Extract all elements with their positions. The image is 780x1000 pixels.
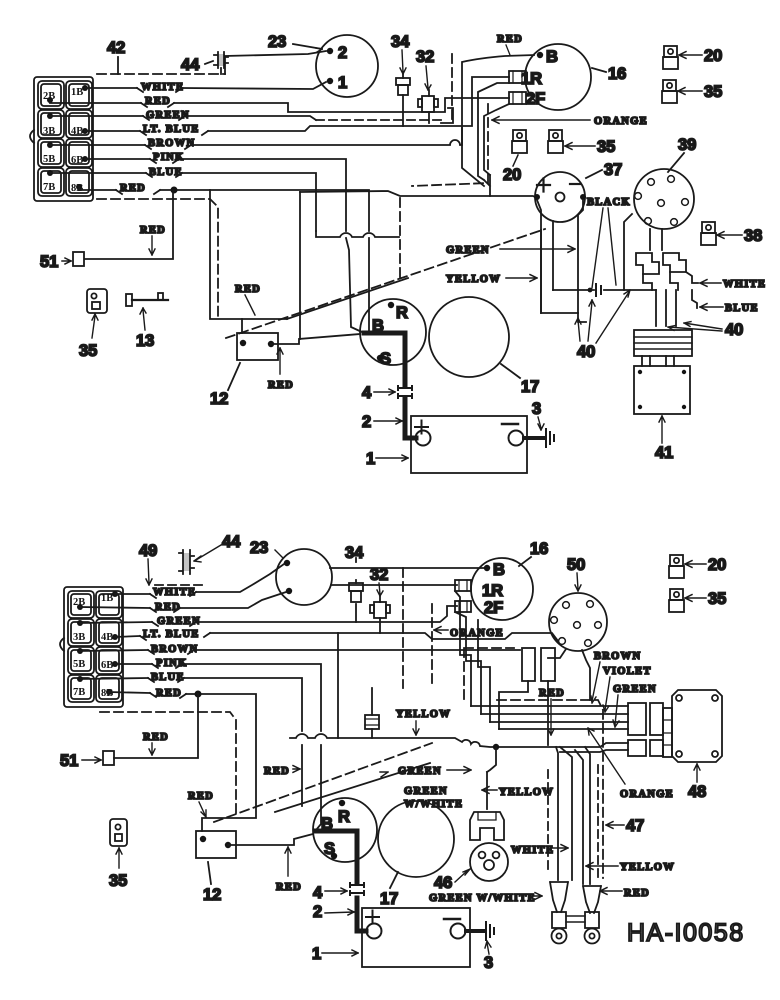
solid diagonal near 12 [287, 278, 408, 319]
svg-text:YELLOW: YELLOW [446, 274, 501, 285]
svg-text:BLUE: BLUE [151, 672, 185, 683]
svg-text:RED: RED [264, 766, 290, 777]
svg-text:5B: 5B [43, 154, 55, 165]
wire LT. BLUE (bottom) [115, 633, 558, 641]
dashed loop below block [97, 199, 218, 316]
wire into ammeter plus [300, 191, 535, 197]
connector icon 35 (top right) [662, 80, 677, 103]
wire WHITE (bottom) [115, 564, 284, 594]
svg-text:35: 35 [704, 83, 722, 101]
svg-text:32: 32 [416, 48, 434, 66]
svg-text:35: 35 [79, 342, 97, 360]
svg-text:7B: 7B [73, 687, 85, 698]
wire LT. BLUE (top) [85, 77, 509, 131]
wire BLUE (top) [50, 173, 316, 231]
svg-text:GREEN: GREEN [157, 616, 201, 627]
relay box 12 [237, 333, 278, 360]
lamp socket bracket [486, 772, 488, 809]
thick cable starter to battery (bottom) [316, 831, 366, 931]
svg-text:2F: 2F [526, 90, 545, 108]
svg-text:B: B [493, 561, 505, 579]
connector 51 (bottom) [103, 751, 114, 765]
bus with hops [316, 231, 399, 237]
wire to gauge terminal 2 [225, 51, 326, 74]
svg-text:RED: RED [624, 888, 650, 899]
fuse holder 34 (bottom) [355, 558, 357, 622]
fuse 4 (bottom) [350, 883, 364, 895]
terminal 1 of gauge 23 [327, 78, 333, 84]
dashed wire from 42 [97, 73, 225, 75]
wire RED (bottom 8B) [109, 692, 256, 831]
dashed harness boundary [451, 54, 453, 123]
harness horizontals to voltage regulator 48 [471, 706, 628, 729]
wire WHITE (top) [85, 82, 326, 89]
svg-text:GREEN W/WHITE: GREEN W/WHITE [429, 893, 536, 904]
svg-text:LT. BLUE: LT. BLUE [143, 124, 200, 135]
svg-text:RED: RED [155, 602, 181, 613]
svg-text:5B: 5B [73, 659, 85, 670]
svg-text:RED: RED [268, 380, 294, 391]
svg-text:GREEN: GREEN [146, 110, 190, 121]
svg-text:39: 39 [678, 136, 696, 154]
svg-text:51: 51 [60, 752, 78, 770]
svg-text:W/WHITE: W/WHITE [404, 799, 463, 810]
wire label ORANGE with line [492, 117, 590, 124]
solid diagonal with arrow (green w/white leader) [275, 763, 430, 812]
magneto 50 [549, 593, 607, 651]
wire GREEN (top) [50, 116, 316, 120]
svg-text:12: 12 [203, 886, 221, 904]
relay icon 35 (bottom left) [110, 819, 127, 846]
svg-text:ORANGE: ORANGE [620, 789, 674, 800]
dashed diagonal (bottom) [214, 743, 432, 822]
yellow wire vertical [537, 200, 578, 313]
block cell labels (bottom) [73, 593, 113, 699]
battery (top) [411, 416, 527, 473]
wires from gauge 23 to regulator 16 (bottom) [330, 567, 484, 569]
svg-text:R: R [396, 304, 408, 322]
connector 41 bottom [634, 366, 690, 414]
voltage regulator 48 [672, 690, 722, 762]
svg-text:BROWN: BROWN [148, 138, 195, 149]
wires below distributor 39 [650, 229, 662, 250]
svg-text:PINK: PINK [153, 152, 184, 163]
svg-text:BROWN: BROWN [151, 644, 198, 655]
capacitor 44 (bottom) [179, 550, 194, 574]
gauge circle 23 [316, 35, 378, 97]
svg-text:R: R [338, 808, 350, 826]
svg-text:13: 13 [136, 332, 154, 350]
svg-text:3B: 3B [43, 126, 55, 137]
svg-text:12: 12 [210, 390, 228, 408]
quick disconnects above 41 [636, 253, 659, 274]
flywheel circle 17 [429, 297, 509, 377]
svg-text:GREEN: GREEN [404, 786, 448, 797]
wire RED (bottom row2) [80, 592, 286, 608]
distributor 39 [634, 169, 694, 229]
svg-text:RED: RED [140, 225, 166, 236]
block cell labels [43, 87, 83, 194]
relay icon 35 (left) [87, 289, 107, 313]
descending bundle right of 16 [478, 83, 509, 180]
wire BROWN (bottom) [80, 650, 520, 651]
capacitor 44 [214, 52, 228, 68]
svg-text:YELLOW: YELLOW [499, 787, 554, 798]
svg-text:1: 1 [312, 945, 321, 963]
left mid: junction dot on RED wire [171, 187, 178, 194]
svg-text:3B: 3B [73, 632, 85, 643]
tall connectors below magneto [522, 648, 535, 681]
svg-text:YELLOW: YELLOW [620, 862, 675, 873]
gauge circle 23 (bottom) [276, 549, 332, 605]
wire from 51 (bottom) [114, 694, 198, 758]
dashed under block (bottom) [100, 712, 236, 816]
svg-text:4: 4 [362, 384, 372, 402]
wire BROWN (top) [50, 55, 534, 145]
breaker 46 [470, 843, 508, 881]
svg-text:VIOLET: VIOLET [603, 666, 652, 677]
svg-text:34: 34 [345, 544, 364, 562]
svg-text:35: 35 [597, 138, 615, 156]
svg-text:20: 20 [503, 166, 521, 184]
svg-text:WHITE: WHITE [723, 279, 766, 290]
connector icon 20 (middle) [512, 130, 527, 153]
connector block (terminal block, bottom diagram) [60, 587, 123, 707]
svg-text:GREEN: GREEN [398, 766, 442, 777]
connector stack 41 top [634, 330, 692, 356]
svg-text:17: 17 [380, 890, 398, 908]
wire from 51 up to RED wire [85, 190, 173, 259]
svg-text:1R: 1R [482, 582, 503, 600]
svg-text:17: 17 [521, 378, 539, 396]
svg-text:38: 38 [744, 227, 762, 245]
green wire vertical from ammeter [578, 200, 583, 313]
svg-text:WHITE: WHITE [153, 587, 196, 598]
svg-text:40: 40 [577, 343, 595, 361]
svg-text:2F: 2F [484, 599, 503, 617]
connector icon 35 (bottom right) [669, 589, 684, 612]
connector icon 20 (top right) [663, 46, 678, 69]
svg-text:RED: RED [539, 688, 565, 699]
svg-text:50: 50 [567, 556, 585, 574]
connector icon 35 (middle) [548, 130, 563, 153]
svg-text:RED: RED [143, 732, 169, 743]
wire bundle left of 41 [578, 313, 586, 322]
wire PINK (top) [85, 159, 346, 231]
solid left loop to box 12 [210, 190, 242, 319]
svg-text:6B: 6B [101, 660, 113, 671]
svg-text:GREEN: GREEN [613, 684, 657, 695]
svg-text:2: 2 [313, 903, 322, 921]
svg-text:42: 42 [107, 39, 125, 57]
svg-text:1: 1 [338, 74, 347, 92]
svg-text:3: 3 [532, 400, 541, 418]
fork connector left funnel [550, 882, 568, 912]
svg-text:16: 16 [608, 65, 626, 83]
dashed diagonal (red wire) [226, 229, 545, 338]
svg-text:ORANGE: ORANGE [450, 628, 504, 639]
fuse 4 [398, 386, 412, 398]
starter relay B R S (bottom) [313, 798, 377, 862]
flywheel circle 17 (bottom) [378, 801, 454, 877]
svg-text:48: 48 [688, 783, 706, 801]
wire BLUE (bottom) [80, 678, 302, 806]
terminal 2 of gauge 23 [327, 48, 333, 54]
svg-text:49: 49 [139, 542, 157, 560]
svg-text:1B: 1B [101, 593, 113, 604]
svg-text:8B: 8B [71, 183, 83, 194]
svg-text:RED: RED [276, 882, 302, 893]
svg-text:46: 46 [434, 874, 452, 892]
svg-text:GREEN: GREEN [446, 245, 490, 256]
svg-text:51: 51 [40, 253, 58, 271]
svg-text:37: 37 [604, 161, 622, 179]
wire under 39 to capacitor [624, 214, 632, 290]
svg-text:RED: RED [188, 791, 214, 802]
svg-text:RED: RED [497, 34, 523, 45]
svg-text:B: B [546, 48, 558, 66]
svg-text:4B: 4B [71, 126, 83, 137]
svg-text:34: 34 [391, 33, 410, 51]
svg-text:20: 20 [708, 556, 726, 574]
wire from 12 to starter B [271, 334, 360, 344]
switch 13 [132, 299, 168, 301]
svg-text:ORANGE: ORANGE [594, 116, 648, 127]
dashed harness lines (bottom mid) [402, 568, 404, 688]
pins of 41 [642, 356, 674, 366]
terminal lugs of 16 [509, 71, 526, 83]
svg-text:6B: 6B [71, 155, 83, 166]
svg-text:23: 23 [268, 33, 286, 51]
battery ground 3 [524, 436, 544, 440]
connector 32 (bottom) [374, 602, 386, 618]
stepped wires into 41 [643, 272, 678, 290]
block terminal dots (bottom) [77, 591, 118, 695]
fuse holder 34 [402, 74, 404, 126]
svg-text:BROWN: BROWN [594, 651, 641, 662]
svg-text:BLUE: BLUE [149, 167, 183, 178]
fork connector right funnel [583, 886, 601, 913]
svg-text:PINK: PINK [156, 658, 187, 669]
svg-text:BLACK: BLACK [587, 197, 631, 208]
svg-text:2: 2 [338, 44, 347, 62]
svg-text:YELLOW: YELLOW [396, 709, 451, 720]
connector icon 38 [701, 222, 716, 245]
svg-text:2: 2 [362, 413, 371, 431]
svg-text:40: 40 [725, 321, 743, 339]
svg-text:35: 35 [708, 590, 726, 608]
battery (bottom) [362, 908, 470, 967]
svg-text:41: 41 [655, 444, 673, 462]
capacitor on wire [553, 289, 656, 291]
svg-text:7B: 7B [43, 182, 55, 193]
fork connector legs and bar [552, 912, 566, 928]
svg-text:1R: 1R [521, 70, 542, 88]
wire RED (lower, from 8B) [79, 187, 369, 332]
svg-text:44: 44 [222, 533, 241, 551]
bus (bottom) with hops [290, 734, 628, 747]
battery ground 3 (bottom) [466, 929, 483, 933]
svg-text:23: 23 [250, 539, 268, 557]
svg-text:3: 3 [484, 954, 493, 972]
regulator 16 [525, 44, 591, 110]
wire RED (top) [50, 98, 509, 112]
connector block (terminal block, top diagram) [30, 77, 93, 201]
svg-text:1: 1 [366, 450, 375, 468]
svg-text:1B: 1B [71, 87, 83, 98]
svg-text:BLUE: BLUE [725, 303, 759, 314]
wire from ammeter bottom [552, 221, 554, 290]
wires from connectors into harness [499, 681, 548, 745]
wires down to fork connector [556, 747, 572, 880]
svg-text:4: 4 [313, 884, 323, 902]
svg-text:8B: 8B [101, 688, 113, 699]
block terminal dots [47, 85, 88, 190]
wire PINK (bottom) [115, 664, 321, 830]
starter motor relay B R S [360, 299, 426, 365]
svg-text:RED: RED [156, 688, 182, 699]
svg-text:RED: RED [145, 96, 171, 107]
ammeter 37 [535, 172, 585, 222]
svg-text:35: 35 [109, 872, 127, 890]
yellow wire with inline fuse [371, 688, 373, 738]
svg-text:LT. BLUE: LT. BLUE [143, 629, 200, 640]
relay box 12 (bottom) [196, 831, 236, 858]
svg-text:RED: RED [235, 284, 261, 295]
svg-text:HA-I0058: HA-I0058 [627, 919, 745, 947]
wire GREEN (bottom) [80, 606, 457, 623]
connector 32 [422, 96, 434, 112]
connector icon 20 (bottom right) [669, 555, 684, 578]
descending wires from regulator (bottom) [455, 591, 471, 706]
svg-text:RED: RED [120, 183, 146, 194]
connector 51 [73, 252, 84, 266]
svg-text:20: 20 [704, 47, 722, 65]
wire from 12 to starter (bottom) [228, 834, 313, 845]
svg-text:WHITE: WHITE [141, 82, 184, 93]
thick cable starter to battery [364, 333, 416, 438]
svg-text:4B: 4B [101, 632, 113, 643]
svg-text:44: 44 [181, 56, 200, 74]
svg-text:47: 47 [626, 817, 644, 835]
regulator 16 (bottom) [471, 558, 533, 620]
svg-text:16: 16 [530, 540, 548, 558]
